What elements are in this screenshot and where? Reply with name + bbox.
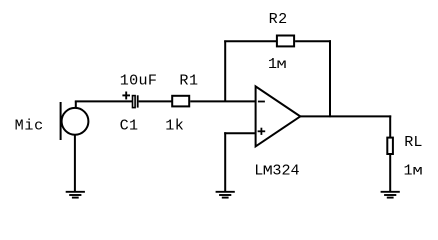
ground under RL	[381, 192, 400, 198]
ground under op-amp	[216, 192, 235, 198]
svg-text:M: M	[263, 163, 273, 179]
wire mic top stub	[75, 101, 77, 108]
wire RL to ground	[389, 155, 391, 191]
resistor R2	[277, 36, 294, 47]
wire feedback right vertical	[329, 40, 331, 117]
resistor R1	[172, 96, 189, 107]
svg-text:R2: R2	[269, 10, 288, 28]
capacitor C1	[122, 92, 137, 108]
svg-text:C1: C1	[120, 116, 139, 134]
wire R1 to op-amp inverting input	[190, 100, 255, 102]
op-amp U1 LM324	[256, 86, 301, 146]
svg-text:M: M	[412, 166, 422, 178]
svg-text:1k: 1k	[165, 116, 184, 134]
resistor RL	[387, 138, 393, 154]
wire mic to C1	[75, 100, 132, 102]
svg-text:324: 324	[272, 161, 299, 179]
microphone Mic	[61, 102, 89, 140]
wire non-inverting input down to ground	[224, 132, 226, 191]
wire C1 to R1	[139, 100, 172, 102]
wire op-amp output	[300, 115, 391, 117]
svg-text:10uF: 10uF	[120, 71, 157, 89]
wire feedback top right segment	[295, 40, 331, 42]
ground under mic	[66, 192, 85, 198]
svg-text:RL: RL	[404, 133, 422, 151]
svg-text:1: 1	[404, 162, 413, 180]
svg-text:Mic: Mic	[15, 116, 44, 134]
svg-text:R1: R1	[179, 71, 198, 89]
wire feedback top left segment	[224, 40, 277, 42]
wire op-amp non-inverting input horizontal	[224, 132, 255, 134]
svg-text:M: M	[276, 60, 286, 72]
wire output corner down to RL	[389, 115, 391, 137]
wire feedback left vertical	[224, 40, 226, 101]
wire mic bottom stem	[74, 134, 76, 191]
